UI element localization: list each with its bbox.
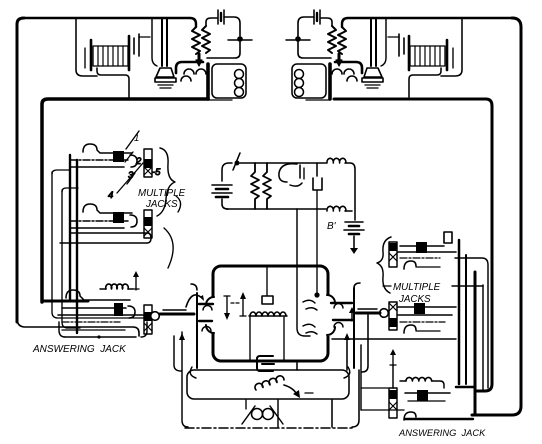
svg-text:3: 3 xyxy=(128,170,134,181)
svg-text:-5: -5 xyxy=(152,167,161,178)
svg-text:MULTIPLE: MULTIPLE xyxy=(393,282,441,293)
svg-text:MULTIPLE: MULTIPLE xyxy=(138,188,186,199)
svg-text:1: 1 xyxy=(134,133,139,144)
svg-text:2: 2 xyxy=(135,156,142,167)
svg-text:JACKS: JACKS xyxy=(145,199,178,210)
svg-text:ANSWERING JACK: ANSWERING JACK xyxy=(398,428,486,438)
svg-text:JACKS: JACKS xyxy=(398,294,431,305)
svg-text:ANSWERING JACK: ANSWERING JACK xyxy=(32,344,127,355)
svg-text:4: 4 xyxy=(108,190,113,201)
svg-text:B': B' xyxy=(327,221,337,232)
